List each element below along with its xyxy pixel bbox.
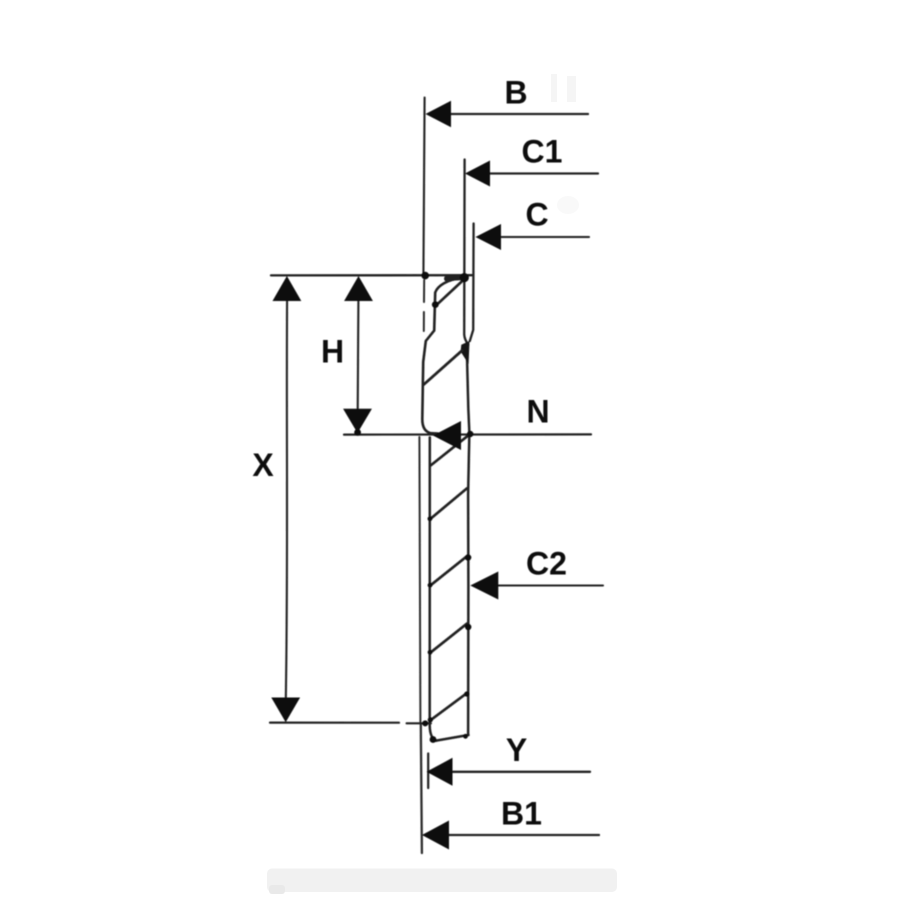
junction dot hatch2 left [428, 583, 433, 588]
part outline: lower section right edge [468, 435, 469, 735]
dimension line H (vertical) [357, 300, 360, 410]
arrowhead X bottom [271, 698, 300, 723]
extension line bottom tick across axis [407, 722, 431, 724]
dimension line C2 [496, 584, 603, 586]
hatch line lower 2 [431, 556, 467, 585]
svg-text:X: X [252, 447, 274, 483]
arrowhead B1 [422, 821, 449, 850]
dimension line Y [450, 771, 590, 773]
arrowhead H bottom [343, 409, 372, 433]
arrowhead C [476, 224, 502, 250]
svg-text:N: N [526, 394, 549, 430]
hatch line lower 3 [431, 624, 467, 653]
arrowhead B [426, 101, 452, 127]
arrowhead X top [273, 276, 302, 301]
dimension line N (shared with H bottom datum) [344, 433, 591, 435]
witness line C + outer right edge of upper flange [470, 224, 474, 342]
arrowhead H top [344, 276, 373, 301]
hatch line lower 0 [431, 435, 469, 465]
arrowhead Y [427, 758, 453, 786]
extension line bottom (X datum, y=722.5) [270, 721, 399, 723]
junction dot hatch4 left [428, 717, 433, 722]
junction dot flange top right [460, 273, 469, 282]
junction dot hatch3 left [428, 650, 433, 655]
svg-text:H: H [321, 334, 344, 370]
dimension line C [499, 236, 589, 238]
svg-text:C1: C1 [522, 134, 563, 170]
hatch line lower 1 [431, 488, 467, 518]
right edge of upper section below wedge [467, 357, 469, 434]
junction dot bottom-right corner [463, 734, 468, 739]
junction dot curl hatch end [432, 301, 439, 308]
dimension line B [449, 113, 588, 115]
svg-text:C: C [525, 197, 548, 233]
junction dot hatch1 left [428, 516, 433, 521]
junction dot hatch4 right [464, 691, 469, 696]
svg-text:B: B [504, 75, 527, 111]
extension line top (datum at rim top, y=275) [271, 274, 472, 276]
hatch line lower 4 [431, 693, 467, 720]
junction dot bottom-left corner blob [430, 736, 437, 743]
part outline: lower section left edge with rounded bottom corner [430, 438, 437, 741]
junction dot hatch2 right [465, 624, 471, 630]
svg-text:B1: B1 [501, 796, 542, 832]
junction dot N line x right edge [467, 431, 473, 437]
arrowhead C1 [465, 161, 490, 187]
part outline: lower section bottom edge [434, 735, 468, 741]
centerline bottom segment [421, 724, 422, 853]
centerline dashed segment [423, 280, 425, 331]
svg-text:C2: C2 [526, 546, 567, 582]
wedge ink blob (hatch meets right edge) [461, 341, 470, 364]
junction dot axis/bottom datum [422, 720, 428, 726]
junction dot H arrow tip [354, 429, 361, 436]
witness tick for Y [427, 754, 429, 789]
part outline: flange curl thick ink under datum [447, 277, 464, 278]
svg-text:Y: Y [506, 732, 527, 768]
dimension line C1 [488, 172, 598, 174]
hatch line upper 1 (inside curl) [436, 282, 461, 306]
hatch line upper 2 [424, 351, 462, 385]
witness line C1 + inner right edge of upper flange [464, 160, 468, 345]
centerline lower segment [419, 437, 420, 722]
dimension line B1 [447, 834, 599, 836]
arrowhead N [433, 421, 461, 450]
junction dot hatch1 right [465, 554, 471, 560]
dimension line X (vertical) [286, 300, 287, 699]
junction dot axis/datum top [421, 272, 429, 280]
arrowhead C2 [470, 572, 498, 600]
centerline (vertical rim axis reference) [423, 98, 424, 278]
part outline: upper flange left/outer contour [422, 278, 461, 434]
